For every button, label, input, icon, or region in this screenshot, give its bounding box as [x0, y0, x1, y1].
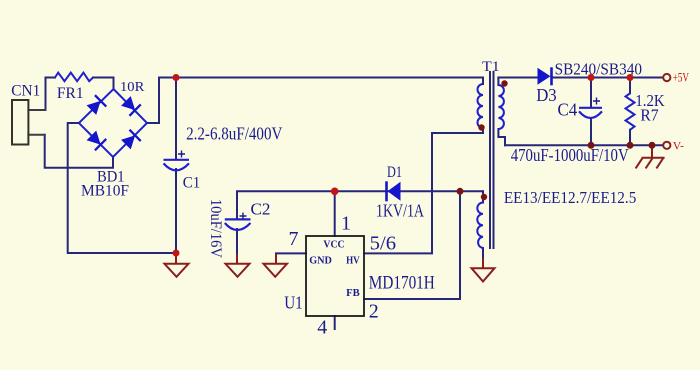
- svg-text:4: 4: [317, 317, 327, 339]
- svg-text:C2: C2: [251, 200, 271, 219]
- svg-text:2: 2: [369, 301, 379, 323]
- svg-text:470uF-1000uF/10V: 470uF-1000uF/10V: [511, 145, 629, 165]
- svg-text:7: 7: [289, 228, 299, 250]
- svg-text:MB10F: MB10F: [81, 183, 129, 200]
- svg-text:GND: GND: [309, 255, 332, 266]
- svg-text:CN1: CN1: [11, 83, 40, 100]
- svg-text:V-: V-: [673, 140, 684, 152]
- svg-text:HV: HV: [346, 255, 360, 266]
- svg-text:D1: D1: [387, 164, 402, 181]
- svg-text:U1: U1: [284, 293, 303, 313]
- svg-text:R7: R7: [640, 105, 659, 124]
- svg-text:2.2-6.8uF/400V: 2.2-6.8uF/400V: [186, 123, 282, 143]
- svg-text:1KV/1A: 1KV/1A: [376, 201, 424, 221]
- svg-text:5/6: 5/6: [370, 233, 397, 255]
- svg-text:SB240/SB340: SB240/SB340: [555, 60, 642, 79]
- svg-text:EE13/EE12.7/EE12.5: EE13/EE12.7/EE12.5: [504, 188, 636, 207]
- svg-text:D3: D3: [536, 85, 557, 105]
- svg-text:FR1: FR1: [57, 85, 84, 102]
- svg-text:C4: C4: [558, 100, 578, 120]
- svg-text:T1: T1: [482, 59, 500, 75]
- svg-text:10R: 10R: [120, 80, 145, 95]
- svg-text:+5V: +5V: [673, 71, 689, 85]
- svg-text:10uF/16V: 10uF/16V: [207, 199, 224, 258]
- svg-text:1: 1: [341, 213, 351, 235]
- svg-text:C1: C1: [183, 175, 201, 192]
- svg-text:FB: FB: [346, 288, 360, 299]
- svg-text:MD1701H: MD1701H: [369, 273, 435, 293]
- svg-text:VCC: VCC: [323, 240, 344, 251]
